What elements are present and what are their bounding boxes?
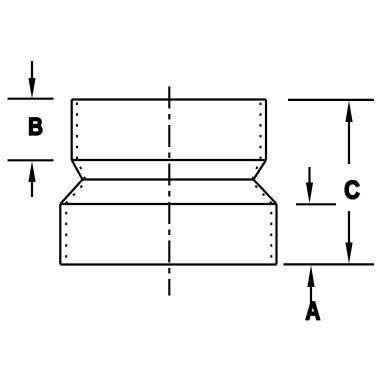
B upper extension line	[8, 98, 54, 100]
C lower extension line	[284, 263, 375, 265]
bottom edge	[60, 263, 276, 265]
lower body top edge	[60, 203, 276, 205]
left neck slant	[72, 160, 83, 180]
dimension B	[8, 61, 54, 197]
right edge lower body	[275, 204, 277, 265]
A short extension line	[296, 203, 336, 205]
left edge lower body	[59, 204, 61, 265]
upper body bottom line	[72, 159, 266, 161]
part outline	[60, 100, 276, 265]
right flare slant	[254, 180, 277, 205]
A up arrow	[310, 287, 312, 305]
right neck slant	[254, 160, 267, 180]
top edge	[72, 98, 266, 100]
dimension A	[296, 167, 336, 320]
C upper extension line	[288, 99, 374, 101]
left edge upper body	[71, 100, 73, 161]
hidden inner wall right	[252, 103, 272, 263]
dimension C	[284, 100, 375, 265]
label C	[345, 181, 359, 199]
B down arrow	[31, 61, 33, 80]
C up arrow	[348, 120, 350, 164]
label A	[306, 302, 320, 320]
hidden inner wall left	[66, 103, 86, 263]
label B	[29, 118, 42, 135]
right edge upper body	[265, 100, 267, 161]
left flare slant	[60, 180, 82, 205]
B up arrow	[31, 180, 33, 197]
B lower extension line	[8, 159, 54, 161]
C down arrow head	[345, 243, 352, 264]
throat line	[83, 178, 254, 180]
C lower stem	[348, 211, 350, 244]
centerline	[168, 87, 170, 296]
A upper down arrow	[308, 167, 310, 184]
